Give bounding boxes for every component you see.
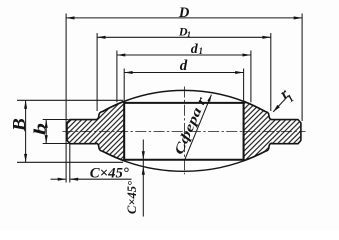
svg-text:D: D bbox=[178, 5, 190, 21]
extension line d1 left bbox=[116, 51, 118, 103]
bore hole bottom edge bbox=[124, 159, 245, 161]
spherical surface top arc (Сфера r) bbox=[103, 90, 266, 111]
extension line b bottom bbox=[43, 143, 69, 145]
extension line D right bbox=[301, 14, 303, 122]
svg-text:B: B bbox=[9, 118, 29, 132]
extension line B bottom bbox=[17, 161, 123, 163]
extension line d left bbox=[123, 69, 125, 103]
svg-text:C×45°: C×45° bbox=[124, 180, 139, 214]
leader Сфера r bbox=[185, 95, 212, 160]
dimension line B bbox=[25, 100, 27, 162]
svg-text:1: 1 bbox=[286, 93, 297, 105]
extension line D1 left bbox=[96, 33, 98, 111]
bore right edge bbox=[243, 102, 245, 160]
lens body left section (hatched) bbox=[67, 101, 124, 161]
extension line D left bbox=[65, 14, 67, 183]
dimension line d bbox=[124, 72, 243, 74]
svg-text:1: 1 bbox=[198, 46, 203, 56]
dimension line D1 bbox=[97, 36, 271, 38]
lens body right section (hatched) bbox=[244, 101, 301, 161]
leader r1 bbox=[273, 96, 288, 112]
spherical surface bottom arc bbox=[103, 151, 266, 171]
extension line D1 right bbox=[270, 33, 272, 111]
svg-text:1: 1 bbox=[187, 29, 191, 39]
extension line b top bbox=[43, 119, 69, 121]
svg-text:C×45°: C×45° bbox=[90, 166, 129, 182]
extension line chamfer C bbox=[69, 144, 71, 183]
extension line d1 right bbox=[250, 51, 252, 103]
svg-text:d: d bbox=[180, 58, 188, 74]
center line horizontal (axis of symmetry) bbox=[63, 130, 306, 132]
dimension line b bbox=[45, 120, 47, 144]
svg-text:b: b bbox=[31, 123, 50, 135]
dimension line D bbox=[66, 17, 302, 19]
bore left edge bbox=[123, 102, 125, 160]
dimension line d1 bbox=[117, 54, 251, 56]
dimension line C bore chamfer (vertical) bbox=[142, 140, 144, 217]
dimension line C chamfer right part bbox=[70, 178, 132, 180]
extension line B top bbox=[17, 99, 123, 101]
center line vertical bbox=[183, 87, 185, 175]
dimension line C chamfer left part bbox=[51, 178, 67, 180]
extension line d right bbox=[243, 69, 245, 103]
bore hole top edge bbox=[124, 102, 245, 104]
